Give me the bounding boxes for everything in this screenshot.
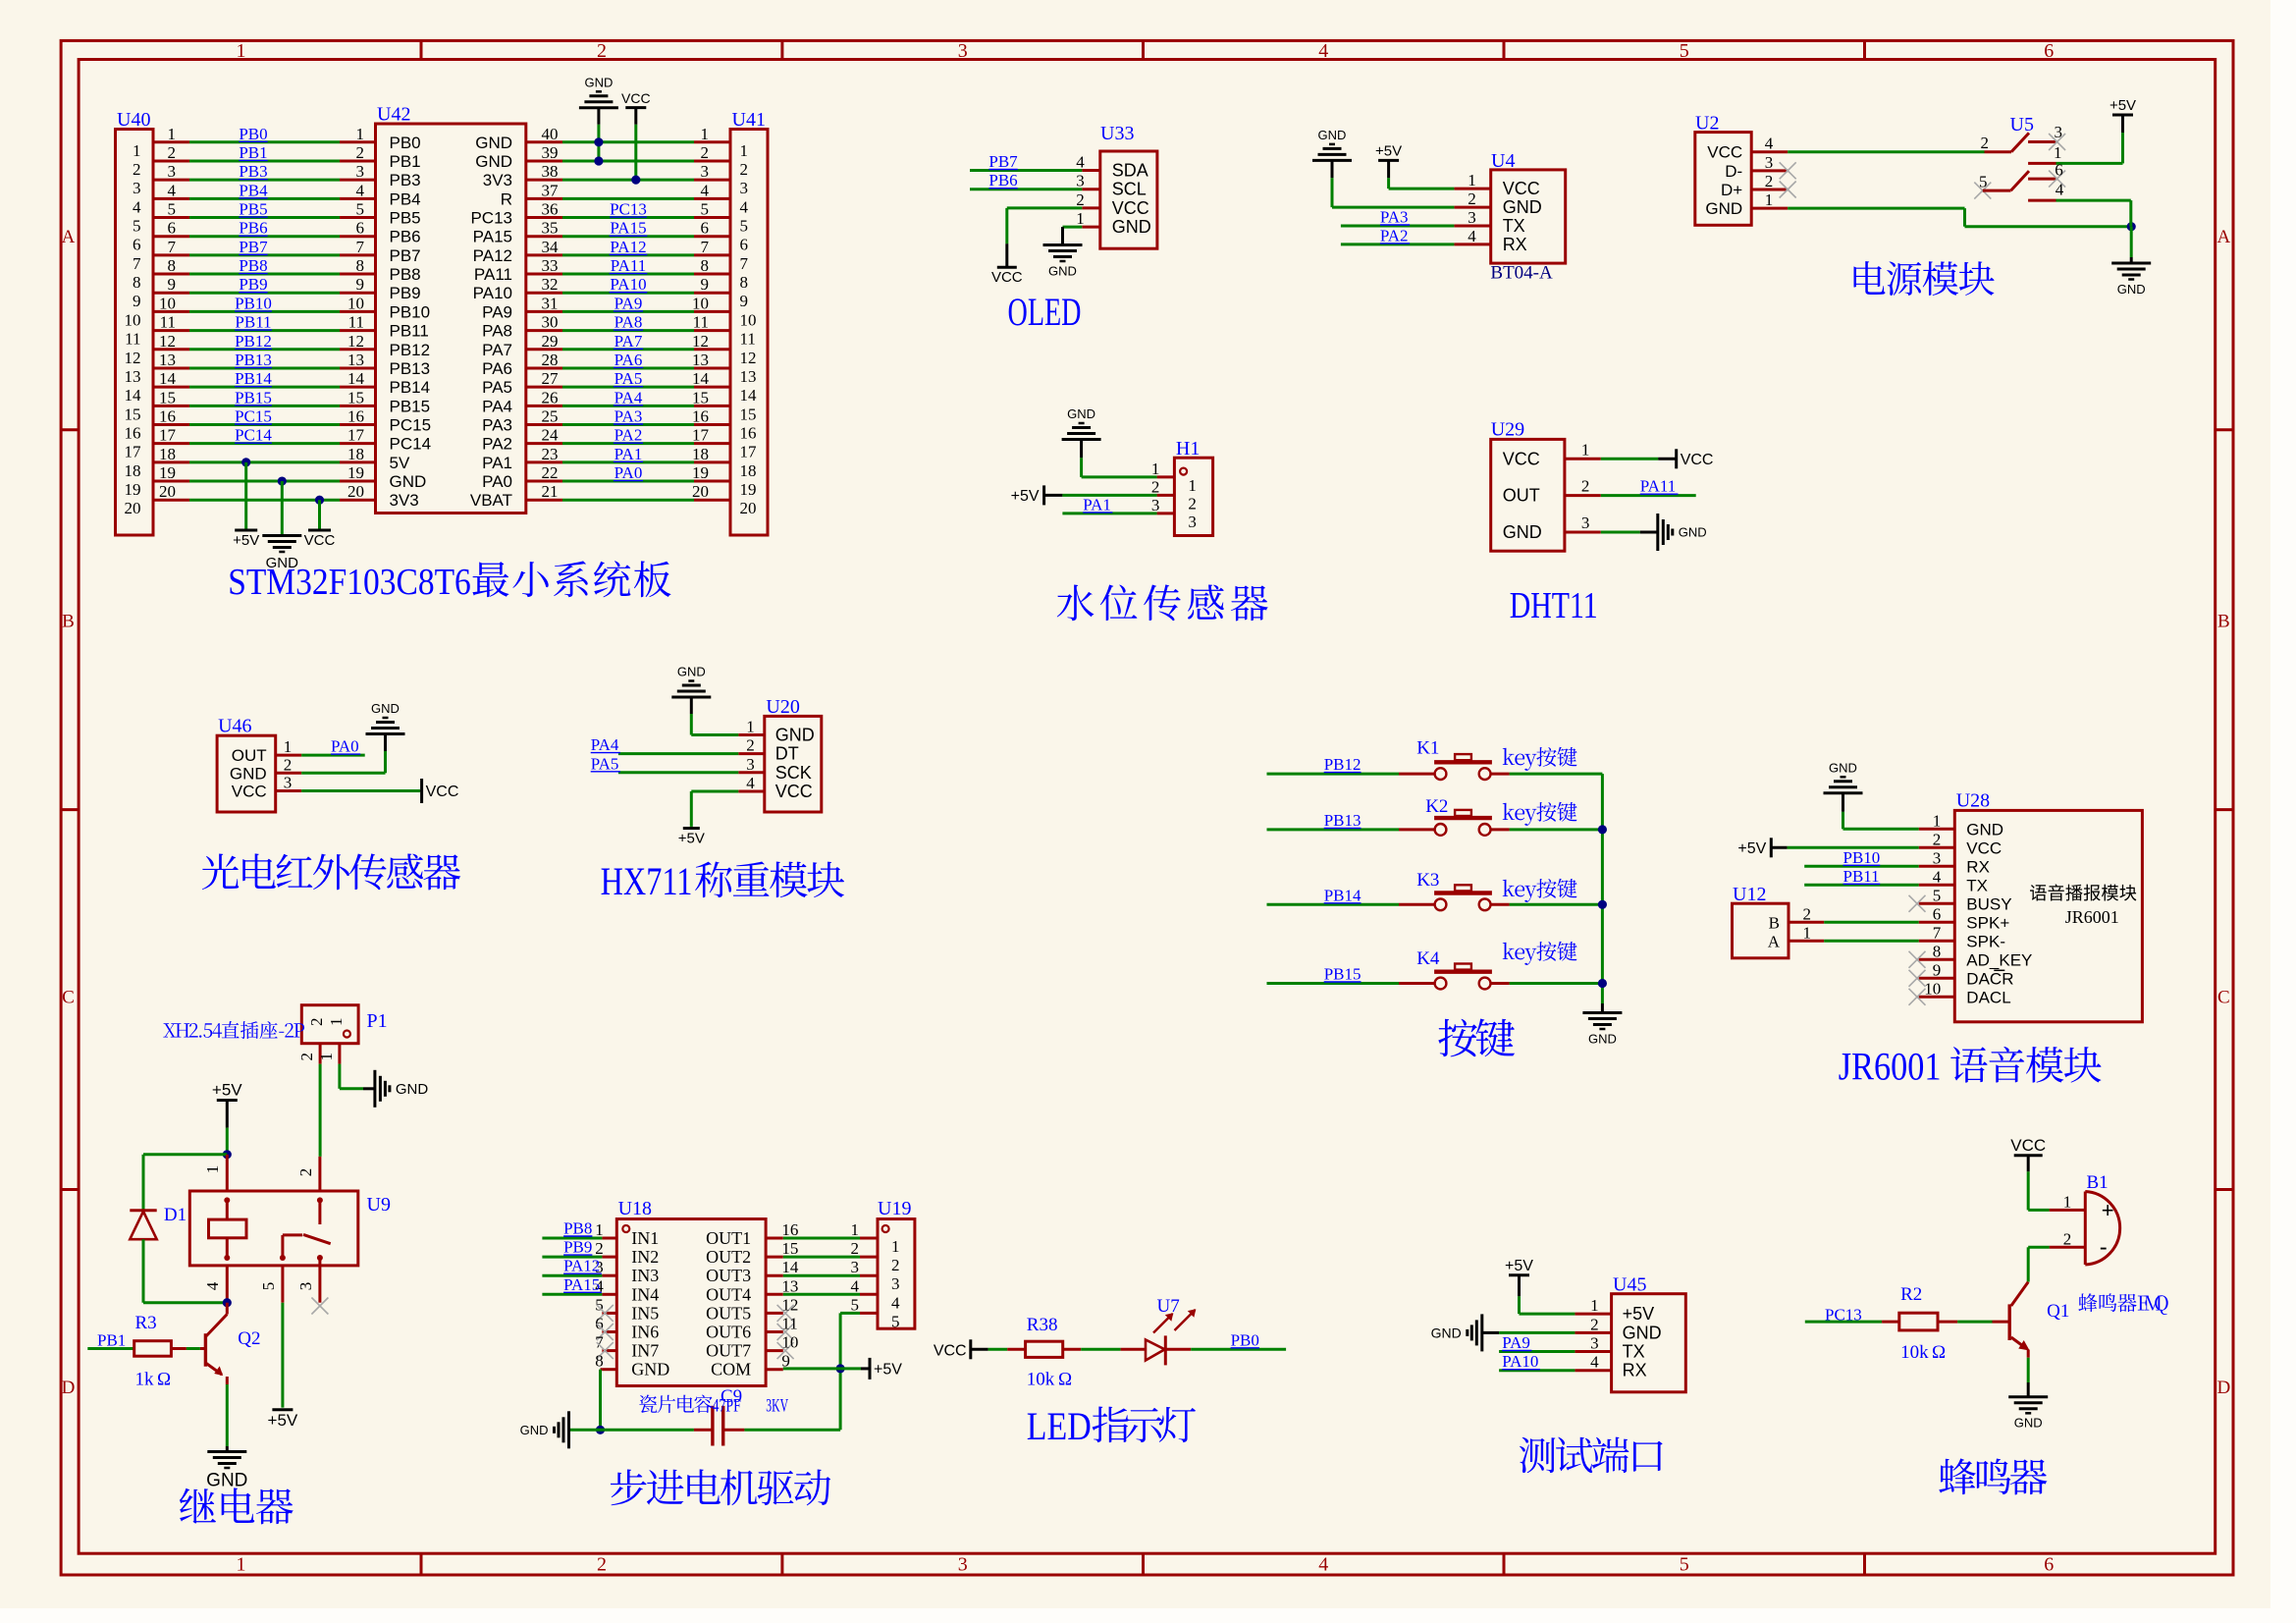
svg-text:GND: GND (230, 764, 267, 783)
svg-text:U28: U28 (1956, 790, 1990, 812)
svg-text:GND: GND (1431, 1325, 1462, 1340)
svg-text:GND: GND (475, 152, 512, 171)
svg-text:8: 8 (168, 256, 177, 275)
svg-text:VCC: VCC (1503, 179, 1540, 198)
svg-text:3: 3 (851, 1258, 860, 1276)
svg-text:16: 16 (692, 407, 709, 426)
svg-text:PA0: PA0 (331, 737, 359, 756)
svg-text:16: 16 (740, 424, 757, 443)
svg-text:IN1: IN1 (631, 1228, 659, 1248)
svg-text:18: 18 (159, 445, 176, 463)
svg-text:AD_KEY: AD_KEY (1966, 950, 2032, 969)
svg-text:3: 3 (746, 755, 755, 774)
svg-text:GND: GND (1318, 128, 1347, 142)
svg-text:2: 2 (297, 1053, 316, 1061)
svg-text:3: 3 (296, 1282, 315, 1291)
svg-text:3: 3 (1151, 496, 1160, 514)
svg-text:B: B (1769, 913, 1780, 932)
svg-text:13: 13 (740, 367, 757, 386)
svg-text:1: 1 (2063, 1193, 2072, 1212)
svg-text:2: 2 (597, 40, 607, 62)
svg-text:PA15: PA15 (473, 228, 512, 246)
svg-text:PB10: PB10 (235, 294, 272, 312)
svg-text:GND: GND (631, 1360, 669, 1380)
svg-text:32: 32 (542, 275, 559, 294)
svg-text:14: 14 (740, 386, 758, 405)
svg-text:C: C (2217, 988, 2230, 1008)
svg-text:3: 3 (1188, 513, 1197, 531)
svg-text:3: 3 (284, 774, 293, 792)
svg-text:1: 1 (1151, 460, 1160, 478)
svg-text:12: 12 (347, 332, 364, 351)
svg-text:2: 2 (356, 143, 365, 162)
svg-text:BT04-A: BT04-A (1490, 263, 1553, 284)
svg-text:1: 1 (740, 141, 749, 160)
svg-text:38: 38 (542, 162, 559, 181)
svg-text:GND: GND (1623, 1323, 1662, 1342)
svg-text:DACR: DACR (1966, 969, 2013, 988)
svg-text:U40: U40 (117, 109, 150, 131)
svg-text:1: 1 (2054, 143, 2062, 162)
svg-text:PA3: PA3 (482, 416, 512, 435)
svg-text:11: 11 (160, 313, 176, 332)
svg-text:HX711: HX711 (601, 859, 693, 903)
svg-text:6: 6 (2055, 161, 2063, 180)
svg-text:PA10: PA10 (473, 284, 512, 302)
svg-text:PB15: PB15 (235, 388, 272, 406)
svg-text:2: 2 (701, 143, 710, 162)
svg-text:3: 3 (958, 40, 968, 62)
svg-text:+5V: +5V (1623, 1304, 1655, 1324)
svg-text:1: 1 (891, 1237, 900, 1256)
svg-text:PA10: PA10 (610, 275, 646, 294)
svg-text:15: 15 (740, 405, 757, 423)
svg-text:20: 20 (740, 499, 757, 517)
svg-text:PA5: PA5 (591, 754, 619, 773)
svg-text:29: 29 (542, 332, 559, 351)
svg-text:PA5: PA5 (482, 378, 512, 397)
svg-text:PB5: PB5 (390, 209, 421, 228)
svg-text:5: 5 (1979, 173, 1988, 191)
svg-text:VCC: VCC (1112, 198, 1149, 218)
svg-text:8: 8 (740, 273, 749, 292)
svg-text:PA6: PA6 (614, 351, 643, 369)
svg-text:1: 1 (327, 1018, 346, 1027)
svg-text:GND: GND (1112, 217, 1151, 237)
svg-text:2: 2 (851, 1239, 860, 1258)
svg-text:6: 6 (133, 236, 141, 254)
svg-text:PA12: PA12 (610, 238, 646, 256)
svg-text:U46: U46 (218, 716, 251, 737)
svg-text:PA2: PA2 (614, 426, 643, 445)
svg-text:PB13: PB13 (1324, 811, 1362, 830)
svg-text:4: 4 (851, 1276, 860, 1295)
svg-text:28: 28 (542, 351, 559, 369)
svg-text:13: 13 (692, 351, 709, 369)
svg-text:C: C (62, 988, 75, 1008)
svg-text:H1: H1 (1176, 438, 1200, 460)
svg-text:PA15: PA15 (563, 1275, 600, 1294)
svg-text:PB11: PB11 (1843, 867, 1880, 886)
svg-text:PB1: PB1 (97, 1331, 126, 1350)
svg-text:3: 3 (1581, 514, 1590, 532)
svg-text:PA9: PA9 (482, 302, 512, 321)
svg-text:VCC: VCC (1681, 452, 1714, 468)
svg-text:8: 8 (1933, 942, 1942, 960)
svg-text:+5V: +5V (268, 1411, 298, 1430)
svg-text:VCC: VCC (426, 784, 459, 800)
svg-text:RX: RX (1503, 235, 1527, 254)
svg-text:12: 12 (740, 349, 757, 367)
svg-text:VCC: VCC (232, 783, 267, 801)
svg-text:SDA: SDA (1112, 161, 1148, 181)
svg-text:PB14: PB14 (1324, 886, 1362, 904)
svg-text:PB3: PB3 (239, 162, 267, 181)
svg-text:PB12: PB12 (1324, 755, 1362, 774)
svg-text:23: 23 (542, 445, 559, 463)
svg-text:1: 1 (356, 125, 365, 143)
svg-text:5: 5 (891, 1312, 900, 1330)
svg-text:PA8: PA8 (614, 313, 643, 332)
svg-text:4: 4 (1318, 40, 1328, 62)
svg-text:R2: R2 (1900, 1284, 1922, 1305)
svg-text:PA7: PA7 (614, 332, 643, 351)
svg-text:5: 5 (1680, 1554, 1689, 1576)
svg-text:B1: B1 (2087, 1172, 2109, 1193)
svg-text:4: 4 (1076, 153, 1085, 172)
svg-text:PB7: PB7 (390, 246, 421, 265)
svg-text:VCC: VCC (2010, 1136, 2046, 1155)
svg-text:14: 14 (781, 1258, 799, 1276)
svg-text:Ω: Ω (157, 1370, 171, 1390)
svg-text:PC15: PC15 (390, 416, 432, 435)
svg-text:K2: K2 (1425, 796, 1448, 817)
svg-text:8: 8 (356, 256, 365, 275)
svg-text:6: 6 (2044, 40, 2054, 62)
svg-text:8: 8 (595, 1352, 604, 1371)
svg-text:OUT6: OUT6 (706, 1323, 751, 1342)
svg-text:10: 10 (740, 310, 757, 329)
svg-text:PA12: PA12 (473, 246, 512, 265)
svg-text:18: 18 (740, 461, 757, 480)
svg-text:GND: GND (677, 665, 706, 679)
svg-text:4: 4 (740, 197, 749, 216)
svg-text:6: 6 (2044, 1554, 2054, 1576)
svg-text:Ω: Ω (1932, 1342, 1946, 1363)
svg-text:PC14: PC14 (390, 435, 432, 454)
svg-text:5: 5 (851, 1295, 860, 1314)
svg-text:3: 3 (1765, 153, 1774, 172)
svg-text:2: 2 (1188, 494, 1197, 513)
svg-text:2: 2 (1581, 477, 1590, 496)
svg-text:U7: U7 (1157, 1296, 1180, 1317)
svg-text:R38: R38 (1027, 1315, 1058, 1335)
svg-text:14: 14 (692, 369, 710, 388)
svg-text:10: 10 (1924, 979, 1941, 998)
svg-text:2: 2 (891, 1256, 900, 1274)
svg-text:PA11: PA11 (611, 256, 647, 275)
svg-text:U5: U5 (2010, 114, 2034, 135)
svg-text:19: 19 (159, 463, 176, 482)
svg-text:GND: GND (1679, 525, 1707, 540)
svg-text:SPK+: SPK+ (1966, 913, 2009, 932)
svg-text:U45: U45 (1613, 1274, 1646, 1296)
svg-text:K4: K4 (1416, 948, 1440, 969)
svg-text:PA5: PA5 (614, 369, 643, 388)
svg-text:12: 12 (692, 332, 709, 351)
svg-text:GND: GND (1966, 820, 2003, 839)
svg-text:DACL: DACL (1966, 988, 2010, 1006)
svg-text:PA8: PA8 (482, 322, 512, 341)
svg-text:OUT1: OUT1 (706, 1228, 751, 1248)
svg-text:PB13: PB13 (235, 351, 272, 369)
svg-text:3: 3 (133, 179, 141, 197)
svg-text:2: 2 (1468, 189, 1476, 208)
svg-text:9: 9 (1933, 960, 1942, 979)
svg-text:20: 20 (125, 499, 141, 517)
svg-text:1: 1 (237, 1554, 246, 1576)
svg-text:PB12: PB12 (390, 341, 431, 359)
svg-text:3: 3 (1076, 172, 1085, 190)
svg-text:3: 3 (356, 162, 365, 181)
svg-text:21: 21 (542, 482, 559, 501)
svg-text:PA6: PA6 (482, 359, 512, 378)
svg-text:U29: U29 (1491, 419, 1524, 441)
svg-text:5: 5 (701, 200, 710, 219)
svg-text:4: 4 (168, 181, 177, 199)
svg-text:3: 3 (740, 179, 749, 197)
svg-text:IN6: IN6 (631, 1323, 659, 1342)
svg-text:COM: COM (711, 1360, 751, 1380)
svg-text:27: 27 (542, 369, 560, 388)
svg-text:13: 13 (347, 351, 364, 369)
svg-text:1: 1 (1803, 923, 1812, 942)
svg-text:10: 10 (347, 294, 364, 312)
svg-text:5V: 5V (390, 454, 410, 472)
svg-text:3: 3 (1590, 1334, 1599, 1353)
svg-text:7: 7 (1933, 923, 1942, 942)
svg-text:17: 17 (692, 426, 710, 445)
svg-text:5: 5 (133, 217, 141, 236)
svg-text:7: 7 (133, 254, 141, 273)
svg-text:SCK: SCK (775, 763, 812, 783)
svg-text:17: 17 (159, 426, 177, 445)
svg-text:GND: GND (1829, 760, 1857, 775)
svg-text:37: 37 (542, 181, 560, 199)
svg-text:U20: U20 (766, 696, 799, 718)
svg-text:A: A (1768, 932, 1781, 950)
svg-text:4: 4 (891, 1293, 900, 1312)
svg-text:VCC: VCC (991, 269, 1023, 286)
svg-text:19: 19 (347, 463, 364, 482)
svg-text:D: D (62, 1378, 76, 1398)
svg-text:Q1: Q1 (2047, 1301, 2069, 1322)
svg-text:10: 10 (125, 310, 141, 329)
svg-text:PB8: PB8 (390, 265, 421, 284)
svg-text:PB10: PB10 (390, 302, 431, 321)
svg-text:2: 2 (595, 1239, 604, 1258)
svg-text:17: 17 (740, 443, 758, 461)
svg-text:3: 3 (958, 1554, 968, 1576)
svg-text:2: 2 (1981, 134, 1990, 152)
svg-text:15: 15 (692, 388, 709, 406)
svg-text:4: 4 (356, 181, 365, 199)
svg-text:10k: 10k (1900, 1342, 1929, 1363)
svg-text:OUT2: OUT2 (706, 1247, 751, 1267)
svg-text:VCC: VCC (304, 532, 336, 549)
svg-text:4: 4 (1590, 1353, 1599, 1372)
svg-text:4: 4 (1765, 135, 1774, 153)
svg-text:PC15: PC15 (235, 407, 272, 426)
svg-text:K1: K1 (1416, 737, 1439, 758)
svg-text:6: 6 (1933, 904, 1942, 923)
svg-text:2: 2 (1933, 830, 1942, 848)
svg-text:7: 7 (356, 238, 365, 256)
svg-text:D: D (2217, 1378, 2231, 1398)
svg-text:TX: TX (1966, 876, 1988, 894)
svg-text:B: B (2217, 612, 2230, 632)
svg-text:Ω: Ω (1058, 1370, 1072, 1390)
svg-text:OUT4: OUT4 (706, 1284, 751, 1304)
svg-text:11: 11 (781, 1315, 797, 1333)
svg-text:5: 5 (168, 200, 177, 219)
svg-text:34: 34 (542, 238, 560, 256)
svg-text:5: 5 (1933, 886, 1942, 904)
svg-text:6: 6 (356, 219, 365, 238)
svg-text:16: 16 (125, 424, 141, 443)
svg-text:4: 4 (203, 1281, 222, 1290)
svg-text:18: 18 (692, 445, 709, 463)
svg-text:24: 24 (542, 426, 560, 445)
svg-text:11: 11 (348, 313, 364, 332)
svg-text:PB15: PB15 (390, 397, 431, 415)
svg-text:19: 19 (125, 480, 141, 499)
svg-text:+5V: +5V (2109, 97, 2136, 114)
svg-text:13: 13 (125, 367, 141, 386)
svg-text:GND: GND (520, 1423, 549, 1437)
svg-text:PB7: PB7 (239, 238, 268, 256)
svg-text:9: 9 (133, 292, 141, 310)
svg-text:PB10: PB10 (1843, 848, 1881, 867)
svg-text:33: 33 (542, 256, 559, 275)
svg-text:VCC: VCC (775, 782, 813, 801)
svg-text:+5V: +5V (1737, 840, 1766, 857)
svg-text:GND: GND (2117, 282, 2146, 297)
svg-text:GND: GND (390, 472, 427, 491)
svg-text:U12: U12 (1733, 884, 1766, 905)
svg-text:2: 2 (1765, 172, 1774, 190)
svg-text:R3: R3 (135, 1313, 157, 1333)
svg-text:16: 16 (347, 407, 364, 426)
svg-text:PA0: PA0 (614, 463, 643, 482)
svg-text:4: 4 (1468, 227, 1476, 245)
svg-text:OLED: OLED (1008, 290, 1082, 334)
svg-text:4: 4 (2056, 181, 2064, 199)
svg-text:10: 10 (781, 1333, 798, 1352)
svg-text:PB8: PB8 (239, 256, 267, 275)
svg-text:6: 6 (740, 236, 749, 254)
svg-text:PA3: PA3 (1380, 208, 1409, 227)
svg-text:10k: 10k (1027, 1370, 1055, 1390)
svg-text:GND: GND (1503, 522, 1542, 542)
svg-text:PB15: PB15 (1324, 965, 1362, 984)
svg-text:PA2: PA2 (482, 435, 512, 454)
svg-text:2: 2 (746, 736, 755, 755)
svg-text:A: A (62, 227, 76, 247)
svg-text:OUT5: OUT5 (706, 1303, 751, 1323)
svg-text:8: 8 (701, 256, 710, 275)
svg-text:16: 16 (159, 407, 176, 426)
svg-text:OUT: OUT (232, 746, 267, 765)
svg-text:4: 4 (1933, 867, 1942, 886)
svg-text:3: 3 (168, 162, 177, 181)
svg-text:+: + (2102, 1198, 2114, 1222)
svg-text:10: 10 (159, 294, 176, 312)
svg-text:PB1: PB1 (390, 152, 421, 171)
svg-text:12: 12 (125, 349, 141, 367)
svg-text:PA15: PA15 (610, 219, 646, 238)
svg-text:2: 2 (2063, 1230, 2072, 1249)
svg-text:1: 1 (1076, 209, 1085, 228)
svg-text:GND: GND (396, 1081, 429, 1098)
svg-text:+5V: +5V (233, 532, 259, 549)
svg-text:IN7: IN7 (631, 1341, 659, 1361)
svg-text:15: 15 (347, 388, 364, 406)
svg-text:11: 11 (125, 330, 140, 349)
svg-text:GND: GND (2014, 1416, 2043, 1431)
svg-text:7: 7 (740, 254, 749, 273)
svg-text:5: 5 (1680, 40, 1689, 62)
svg-text:11: 11 (740, 330, 756, 349)
svg-text:2: 2 (284, 755, 293, 774)
svg-text:R: R (501, 189, 512, 208)
svg-text:1: 1 (1581, 440, 1590, 459)
svg-text:PB0: PB0 (390, 134, 421, 152)
svg-text:PB0: PB0 (239, 125, 267, 143)
svg-text:1: 1 (701, 125, 710, 143)
svg-text:1: 1 (746, 718, 755, 736)
svg-text:IN3: IN3 (631, 1266, 659, 1285)
svg-text:3: 3 (701, 162, 710, 181)
svg-text:12: 12 (159, 332, 176, 351)
svg-text:GND: GND (1503, 197, 1542, 217)
svg-text:4: 4 (701, 181, 710, 199)
svg-text:OUT7: OUT7 (706, 1341, 751, 1361)
svg-text:19: 19 (692, 463, 709, 482)
svg-text:3: 3 (891, 1274, 900, 1293)
svg-text:1: 1 (284, 737, 293, 756)
svg-text:DHT11: DHT11 (1510, 585, 1598, 626)
svg-text:JR6001: JR6001 (2065, 907, 2119, 927)
svg-text:6: 6 (168, 219, 177, 238)
svg-text:1: 1 (317, 1053, 336, 1061)
svg-text:OUT: OUT (1503, 486, 1540, 506)
svg-text:5: 5 (740, 217, 749, 236)
svg-text:D1: D1 (164, 1205, 187, 1225)
svg-text:2: 2 (597, 1554, 607, 1576)
svg-text:+5V: +5V (678, 830, 705, 846)
svg-text:U42: U42 (377, 104, 410, 126)
svg-text:+5V: +5V (874, 1362, 902, 1379)
svg-text:1: 1 (595, 1220, 604, 1239)
svg-text:36: 36 (542, 200, 559, 219)
svg-text:PA7: PA7 (482, 341, 512, 359)
svg-text:15: 15 (159, 388, 176, 406)
svg-text:4: 4 (746, 774, 755, 792)
svg-text:TX: TX (1623, 1342, 1645, 1362)
svg-text:PB6: PB6 (988, 171, 1017, 189)
svg-text:18: 18 (125, 461, 141, 480)
